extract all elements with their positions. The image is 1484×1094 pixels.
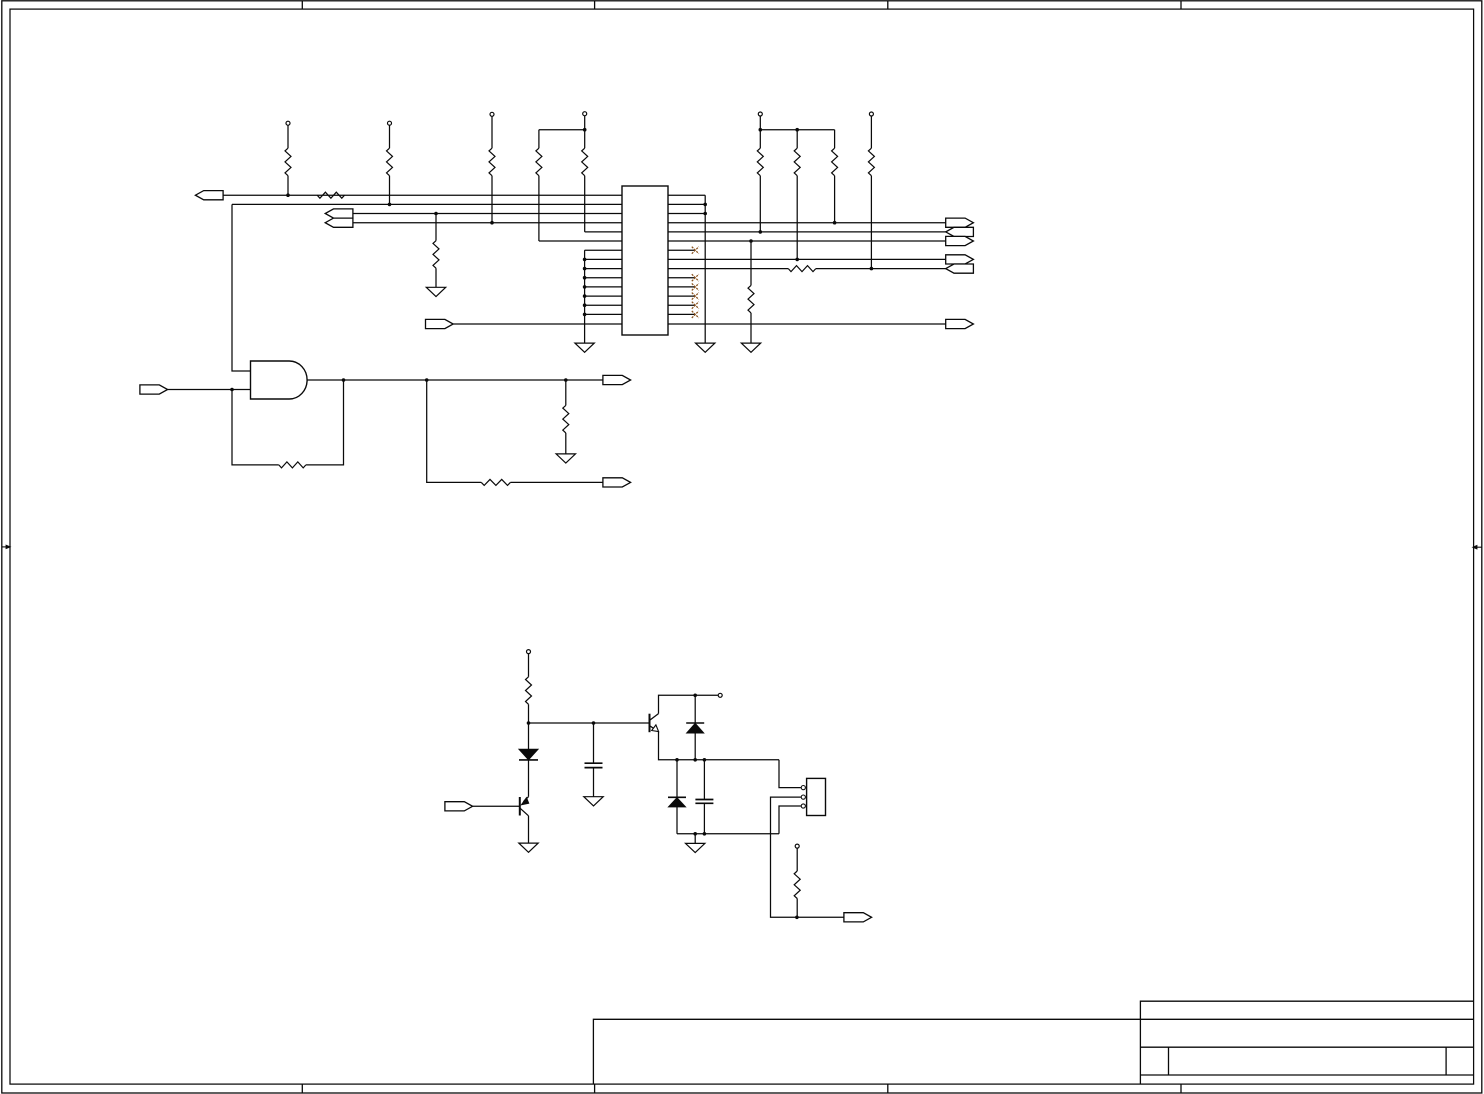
IC U1 body bbox=[622, 186, 668, 335]
ground for R12 bbox=[741, 343, 760, 352]
node dot capacitor C1 bbox=[592, 721, 596, 725]
wire J1 pin3 to bottom node bbox=[779, 806, 801, 834]
AND gate U2 bbox=[251, 361, 308, 399]
title block row line 1 bbox=[1140, 1018, 1473, 1020]
ground for R16 bbox=[556, 454, 575, 463]
junction dot left pin 12 bbox=[583, 294, 587, 298]
junction dot left pin 8 bbox=[583, 258, 587, 262]
resistor R2 pullup bbox=[285, 121, 291, 195]
no-connect pin 12 bbox=[692, 293, 699, 300]
wire U1 right pin8 net bbox=[668, 258, 946, 260]
wire U1 left pin 14 bbox=[585, 313, 622, 315]
resistor R6 bbox=[536, 130, 622, 241]
title block row line 3 bbox=[1140, 1074, 1473, 1076]
connector P10 out-flag bbox=[946, 319, 974, 328]
diode D1 bbox=[519, 723, 538, 797]
node dot R9 top bbox=[795, 128, 799, 132]
wire U1 right pin 12 stub bbox=[668, 295, 695, 297]
no-connect pin 11 bbox=[692, 283, 699, 290]
left centre arrow bbox=[2, 545, 12, 550]
comment box bbox=[593, 1019, 1140, 1084]
bottom zone tick 3 bbox=[887, 1084, 889, 1093]
wire U1 right pin 1 stub bbox=[668, 194, 705, 196]
bottom zone tick 2 bbox=[594, 1084, 596, 1093]
node dot R2 top on bus1 bbox=[286, 193, 290, 197]
wire bus2 drop to gate bbox=[232, 204, 251, 371]
junction dot left pin 9 bbox=[583, 267, 587, 271]
feedback loop wire bbox=[232, 380, 344, 465]
transistor Q1 bbox=[520, 797, 530, 844]
wire U1 left pin 11 bbox=[585, 286, 622, 288]
wire node A to Q2 base bbox=[529, 722, 650, 724]
power pin Q2 collector bbox=[718, 693, 722, 697]
wire U1 right pin 2 stub bbox=[668, 203, 705, 205]
junction dot gate input bbox=[230, 388, 234, 392]
wire IN2 to Q1 base bbox=[473, 805, 520, 807]
resistor R12 to ground bbox=[748, 241, 754, 343]
junction dot right pin3 bbox=[703, 212, 707, 216]
wire bus2 (U1 pin2) bbox=[232, 203, 622, 205]
wire U1 right pin 3 stub bbox=[668, 213, 705, 215]
resistor R18 pullup bbox=[794, 844, 800, 917]
node dot branch bbox=[425, 378, 429, 382]
node dot output bbox=[795, 916, 799, 920]
node dot C2 bottom bbox=[703, 832, 707, 836]
connector P9 left-flag bbox=[946, 264, 974, 273]
resistor R7 bbox=[582, 112, 622, 232]
wire U1 left pin 12 bbox=[585, 295, 622, 297]
junction dot R11 on pin9 net bbox=[870, 267, 874, 271]
node dot C2 top bbox=[703, 758, 707, 762]
node dot D2 bottom bbox=[693, 758, 697, 762]
node A dot bbox=[527, 721, 531, 725]
bottom zone tick 1 bbox=[301, 1084, 303, 1093]
top zone tick 3 bbox=[887, 1, 889, 9]
ground for R4 bbox=[426, 287, 445, 296]
connector P2 left-flag bbox=[325, 209, 353, 218]
resistor R15 series bbox=[481, 479, 510, 485]
wire U1 right pin 10 stub bbox=[668, 277, 695, 279]
wire U1 right pin 11 stub bbox=[668, 286, 695, 288]
resistor R5 pullup bbox=[489, 112, 495, 222]
wire R6-R7 top link bbox=[539, 129, 585, 131]
wire U1 left pin 9 bbox=[585, 268, 622, 270]
top zone tick 1 bbox=[301, 1, 303, 9]
node dot R3 top on bus2 bbox=[388, 203, 392, 207]
connector P15 out-flag bbox=[844, 913, 872, 922]
resistor R11 pullup bbox=[868, 112, 874, 269]
connector P13 out-flag bbox=[603, 478, 631, 487]
resistor R14 feedback bbox=[279, 462, 306, 468]
wire bus4 (U1 pin4) bbox=[353, 222, 622, 224]
branch wire down bbox=[427, 380, 603, 482]
ground right bus bbox=[696, 343, 715, 352]
wire U1 right pin7 stub bbox=[668, 249, 695, 251]
connector P3 left-flag bbox=[325, 218, 353, 227]
node dot ground stub bbox=[693, 832, 697, 836]
wire U1 left pin 13 bbox=[585, 304, 622, 306]
node dot pulldown bbox=[564, 378, 568, 382]
junction dot right pin2 bbox=[703, 203, 707, 207]
resistor R4 pulldown bbox=[433, 214, 439, 288]
connector P1 left-flag bbox=[195, 191, 223, 200]
node dot diode D2 top bbox=[693, 694, 697, 698]
wire IN3 to U1 pin15 bbox=[453, 323, 622, 325]
wire IN1 to gate input bbox=[168, 389, 251, 391]
junction dot left pin 14 bbox=[583, 313, 587, 317]
wire Q2 emitter to node line bbox=[659, 732, 780, 760]
title block cell divider left bbox=[1168, 1047, 1170, 1075]
wire U1 right pin 14 stub bbox=[668, 313, 695, 315]
resistor R13 series bbox=[788, 266, 816, 272]
J1 pin2 circle bbox=[801, 795, 805, 799]
wire U1 right pin5 net bbox=[668, 231, 973, 233]
resistor R10 pullup bbox=[832, 130, 838, 223]
junction dot R12 on pin6 net bbox=[749, 239, 753, 243]
wire gate output bbox=[307, 379, 603, 381]
title block cell divider right bbox=[1445, 1047, 1447, 1075]
capacitor C1 bbox=[585, 723, 603, 797]
ground bottom node bbox=[686, 834, 705, 853]
wire U1 right pin15 net bbox=[668, 323, 946, 325]
node dot R4 top on bus3 bbox=[434, 212, 438, 216]
node dot R7 top bbox=[583, 128, 587, 132]
wire U1 right pin6 net bbox=[668, 240, 946, 242]
resistor R17 pullup bbox=[526, 650, 532, 723]
resistor R1 series bbox=[317, 192, 344, 198]
no-connect pin7 bbox=[692, 247, 699, 254]
connector P7 out-flag bbox=[946, 236, 974, 245]
top zone tick 4 bbox=[1180, 1, 1182, 9]
connector P5 out-flag bbox=[946, 218, 974, 227]
connector J1 body bbox=[807, 778, 826, 815]
junction dot R8 on pin5 net bbox=[759, 230, 763, 234]
J1 pin1 circle bbox=[801, 786, 805, 790]
wire U1 left pin bus bbox=[584, 250, 586, 343]
junction dot left pin 11 bbox=[583, 285, 587, 289]
ground Q1 collector bbox=[519, 843, 538, 852]
node dot D3 branch bbox=[675, 758, 679, 762]
connector P6 left-flag bbox=[946, 227, 974, 236]
wire U1 left pin 10 bbox=[585, 277, 622, 279]
node dot R5 bottom on bus4 bbox=[490, 221, 494, 225]
transistor Q2 bbox=[650, 714, 659, 733]
wire U1 right pin 13 stub bbox=[668, 304, 695, 306]
wire U1 right pin9 net b bbox=[816, 268, 974, 270]
resistor R8 pullup bbox=[757, 112, 763, 232]
wire right bus vertical bbox=[704, 195, 706, 343]
connector P14 input flag bbox=[445, 802, 473, 811]
resistor R16 pulldown bbox=[563, 380, 569, 454]
node dot feedback bbox=[342, 378, 346, 382]
no-connect pin 10 bbox=[692, 274, 699, 281]
diode D2 bbox=[686, 695, 704, 760]
wire U1 left pin 8 bbox=[585, 258, 622, 260]
wire R8-R10 top link bbox=[760, 129, 834, 131]
resistor R3 pullup bbox=[387, 121, 393, 204]
right centre arrow bbox=[1472, 545, 1482, 550]
wire node to J1 pin1 bbox=[779, 760, 801, 788]
connector P11 input flag bbox=[140, 385, 168, 394]
ground U1 left bus bbox=[575, 343, 594, 352]
connector P12 out-flag bbox=[603, 375, 631, 384]
connector P8 out-flag bbox=[946, 255, 974, 264]
top zone tick 2 bbox=[594, 1, 596, 9]
junction dot left pin 13 bbox=[583, 303, 587, 307]
diode D3 bbox=[668, 760, 686, 834]
wire bus3 (U1 pin3) bbox=[353, 213, 622, 215]
node dot R8 top bbox=[759, 128, 763, 132]
no-connect pin 14 bbox=[692, 311, 699, 318]
wire U1 left pin 7 bbox=[585, 249, 622, 251]
wire bus1 (U1 pin1) bbox=[223, 194, 622, 196]
title block outline bbox=[1140, 1001, 1473, 1084]
junction dot R10 on pin4 net bbox=[833, 221, 837, 225]
connector P4 input flag bbox=[426, 319, 454, 328]
wire Q2 collector bbox=[659, 695, 718, 713]
resistor R9 pullup bbox=[794, 130, 800, 260]
capacitor C2 bbox=[695, 760, 713, 834]
no-connect pin 13 bbox=[692, 302, 699, 309]
wire U1 right pin9 net a bbox=[668, 268, 788, 270]
wire bottom node line bbox=[677, 833, 779, 835]
junction dot R9 on pin8 net bbox=[795, 258, 799, 262]
wire J1 pin2 to output bbox=[771, 797, 844, 917]
ground capacitor C1 bbox=[584, 797, 603, 806]
wire U1 right pin4 net bbox=[668, 222, 946, 224]
junction dot left pin 10 bbox=[583, 276, 587, 280]
J1 pin3 circle bbox=[801, 804, 805, 808]
bottom zone tick 4 bbox=[1180, 1084, 1182, 1093]
title block row line 2 bbox=[1140, 1046, 1473, 1048]
